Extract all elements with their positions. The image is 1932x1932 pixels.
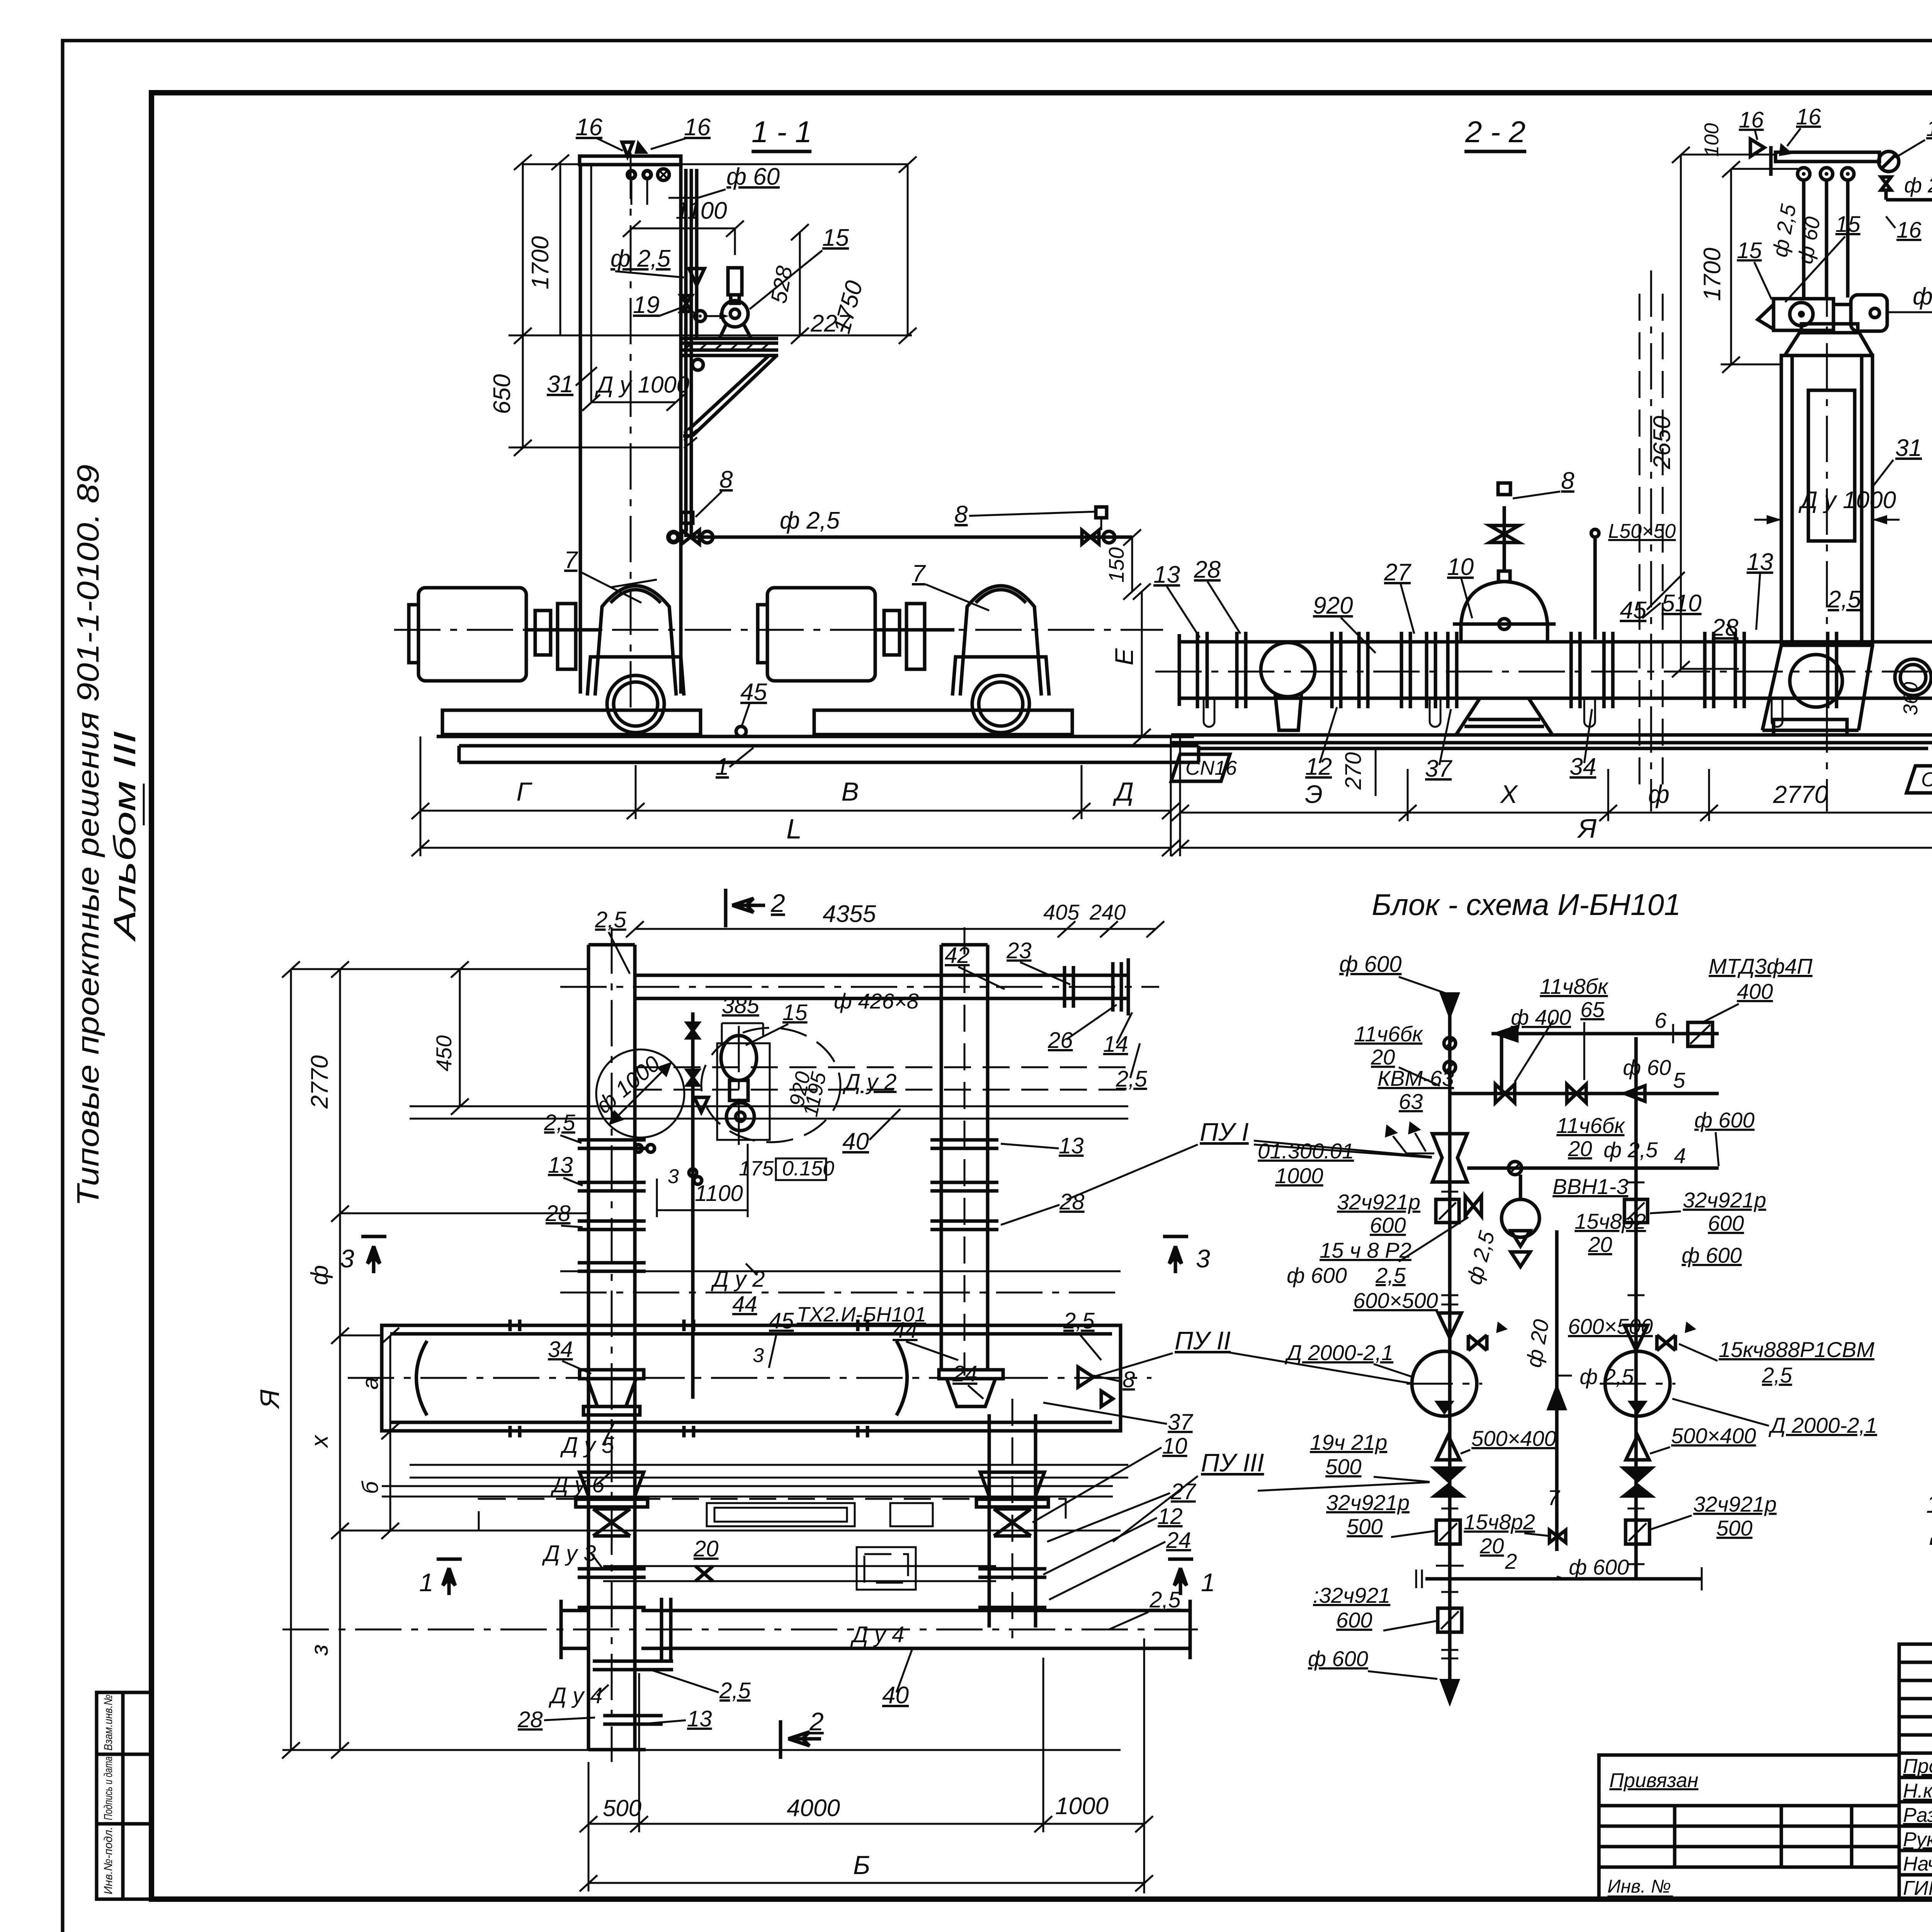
dim 2650 [1680,155,1682,669]
svg-text:2650: 2650 [1649,416,1675,469]
svg-text:20: 20 [1480,1534,1504,1558]
check valve dome [1461,582,1548,642]
dim E [1141,591,1143,736]
svg-text:360: 360 [1900,682,1922,716]
svg-text:Б: Б [853,1850,870,1880]
svg-text::32ч921: :32ч921 [1313,1583,1390,1607]
svg-text:Рук.гр.: Рук.гр. [1903,1828,1932,1851]
svg-text:2770: 2770 [1773,781,1828,808]
beam line [410,1105,1128,1107]
svg-text:63: 63 [1399,1089,1423,1114]
svg-text:20: 20 [1568,1136,1592,1161]
staff table thin top rows [1899,1661,1932,1664]
svg-text:ф 600: ф 600 [1569,1555,1629,1579]
svg-text:0.150: 0.150 [782,1157,834,1180]
svg-text:ф: ф [1648,780,1669,808]
privyazan box [1599,1755,1899,1899]
svg-text:3: 3 [1196,1244,1210,1273]
svg-text:15ч8р2: 15ч8р2 [1464,1510,1535,1534]
svg-text:13: 13 [1059,1133,1084,1158]
small valve below vvn [1465,1196,1481,1216]
open tank rect [857,1547,916,1590]
svg-text:15кч888Р1СВМ: 15кч888Р1СВМ [1719,1337,1874,1362]
svg-text:Инв. №: Инв. № [1607,1876,1671,1897]
svg-text:15: 15 [1835,212,1861,237]
svg-text:Инв.№-подл.: Инв.№-подл. [102,1827,115,1895]
damper box MTD3f4P [1688,1022,1713,1046]
svg-text:500: 500 [1325,1454,1361,1479]
svg-text:600: 600 [1336,1608,1372,1632]
svg-text:1: 1 [716,753,729,780]
svg-text:13: 13 [1153,561,1180,588]
svg-text:1: 1 [1201,1568,1215,1597]
bottom dim chain [1179,735,1181,856]
svg-text:ф 2,5: ф 2,5 [1904,173,1932,197]
Dy3 pipe [603,1565,996,1567]
svg-text:Д 2000-2,1: Д 2000-2,1 [1284,1340,1393,1365]
lower frame dashed rect [479,1499,1066,1531]
platform deck [680,337,778,340]
svg-text:40: 40 [842,1128,869,1155]
line 5 [1450,1092,1719,1095]
column centerline [630,153,632,715]
aux pump monoblock plan [701,1028,840,1142]
CN16 tags [1171,754,1230,781]
right upper pipe [940,945,943,1370]
svg-text:ПУ II: ПУ II [1175,1326,1231,1355]
left gate square [1436,1199,1459,1223]
gate squares 500 [1436,1520,1460,1544]
svg-text:L: L [786,814,802,845]
lower left continuation [1438,1608,1462,1632]
svg-text:2,5: 2,5 [719,1678,751,1703]
svg-text:L50×50: L50×50 [1608,520,1676,543]
Dy4 bottom pipe [641,1609,1190,1612]
valve circles on main [1444,1037,1456,1049]
svg-text:23: 23 [1006,938,1032,963]
svg-text:42: 42 [945,943,970,968]
svg-text:Альбом III: Альбом III [107,731,142,942]
f1000 dashed circle [596,1049,684,1138]
svg-text:Привязан: Привязан [1609,1769,1698,1792]
svg-text:8: 8 [719,466,733,493]
svg-text:8: 8 [954,501,968,528]
svg-text:45: 45 [1620,597,1646,624]
svg-text:8: 8 [1561,468,1575,494]
svg-text:11ч6бк: 11ч6бк [1556,1113,1626,1138]
centerline pumps [394,629,1163,631]
valve 19 on riser [681,296,692,311]
vacuum column vessel [1781,355,1872,645]
svg-text:12: 12 [1158,1504,1183,1529]
svg-text:16: 16 [1796,104,1821,129]
section mark 2 top [724,889,728,927]
valves 16 on top [1750,139,1764,156]
svg-text:920: 920 [1313,592,1353,619]
svg-text:24: 24 [952,1361,978,1386]
Dy6 transition left [580,1472,644,1499]
dim 650 [522,162,524,447]
svg-text:44: 44 [732,1292,757,1317]
svg-text:Д у 4: Д у 4 [850,1622,904,1647]
lower flanges left pipe [578,1569,673,1750]
flanges [1197,632,1837,708]
svg-text:24: 24 [1166,1528,1191,1553]
dim 1700 [560,162,561,335]
svg-text:Блок - схема И-БН101: Блок - схема И-БН101 [1372,888,1681,922]
risers [684,169,688,537]
bracket brace [692,356,776,436]
svg-text:ПУ I: ПУ I [1200,1117,1249,1146]
svg-text:Взам.инв.№: Взам.инв.№ [102,1695,115,1751]
pump casing 1 [595,586,676,696]
valve group left [666,530,681,544]
svg-text:2,5: 2,5 [1063,1308,1095,1333]
svg-text:1100: 1100 [675,197,727,224]
svg-text:2,5: 2,5 [1149,1587,1181,1612]
svg-text:СN16: СN16 [1185,757,1237,779]
svg-text:10: 10 [1162,1434,1187,1459]
svg-text:13: 13 [1747,549,1773,575]
svg-text:Д у 6: Д у 6 [550,1472,605,1497]
elbow circle left [1261,643,1315,697]
svg-text:6: 6 [1655,1008,1667,1032]
gauge circles [626,169,637,180]
svg-text:2: 2 [1505,1549,1517,1573]
branch vertical [1500,1034,1503,1094]
svg-text:13: 13 [548,1153,573,1178]
X valve left [593,1509,630,1536]
header bolts [510,1320,867,1437]
svg-text:65: 65 [1580,997,1605,1022]
diag valves with flags [1468,1335,1487,1350]
riser hatch mark [684,422,697,448]
svg-text:32ч921р: 32ч921р [1337,1190,1420,1214]
dim 150 [1131,537,1133,591]
svg-text:500×400: 500×400 [1671,1423,1756,1448]
pump suction circle 1 [607,675,664,733]
svg-text:16: 16 [1896,218,1922,243]
svg-text:ф 60: ф 60 [726,163,780,190]
svg-text:Д 2000-2,1: Д 2000-2,1 [1768,1413,1877,1437]
svg-text:175: 175 [739,1157,774,1180]
svg-text:650: 650 [489,374,515,414]
svg-text:Д у 2: Д у 2 [842,1070,896,1095]
valve 16 open [622,142,633,156]
svg-text:2: 2 [770,889,785,917]
valve pair right [1082,530,1099,544]
Dy5 transition flange [580,1370,644,1415]
svg-text:44: 44 [893,1318,918,1343]
svg-text:8: 8 [1122,1367,1135,1392]
sub dims a b [389,1335,391,1531]
main inlet line [1448,992,1452,1679]
svg-text:4000: 4000 [787,1795,840,1821]
svg-text:500×400: 500×400 [1471,1426,1556,1451]
svg-text:37: 37 [1168,1410,1194,1435]
svg-text:2,5: 2,5 [1827,586,1861,613]
svg-text:11ч8бк: 11ч8бк [1540,974,1609,998]
svg-text:270: 270 [1341,752,1366,790]
svg-text:19ч 21р: 19ч 21р [1310,1430,1387,1454]
svg-text:2,5: 2,5 [544,1110,575,1135]
svg-text:Э: Э [1305,780,1323,808]
dim 1700 [1730,169,1732,364]
Dy6 transition right [980,1472,1044,1499]
reducers 500x400 [1437,1435,1460,1460]
svg-text:400: 400 [1737,979,1773,1003]
svg-text:ф 400: ф 400 [1511,1005,1571,1029]
dome support [1456,698,1553,735]
svg-text:3: 3 [340,1244,354,1273]
check valves filled [1430,1466,1467,1498]
coupling 1 [535,611,551,655]
svg-text:500: 500 [1716,1516,1752,1540]
X valve right [994,1509,1031,1536]
svg-text:240: 240 [1089,900,1126,924]
svg-text:Н.контр: Н.контр [1903,1780,1932,1802]
pump unit 2 motor [767,588,875,681]
svg-text:Г: Г [517,777,533,806]
top pressure pipe f426x8 [635,974,1128,977]
KVM flags [1385,1124,1398,1138]
svg-text:28: 28 [1711,614,1738,641]
line 6 to MTD [1492,1032,1719,1036]
left pipe column [587,945,590,1750]
dim 528 [799,232,801,335]
svg-text:11ч6бк: 11ч6бк [1354,1022,1423,1046]
svg-text:2: 2 [809,1707,824,1736]
svg-text:ГИП: ГИП [1903,1877,1932,1900]
svg-text:150: 150 [1104,547,1128,583]
svg-text:б: б [358,1480,383,1494]
vacuum unit symbol [1432,1134,1467,1182]
inlet arrow [1439,992,1460,1020]
svg-text:ф 600: ф 600 [1694,1108,1755,1132]
VVN1-3 pump [1502,1199,1539,1237]
column top piping [1802,180,1806,298]
svg-text:15: 15 [822,224,849,251]
svg-text:16: 16 [1739,107,1764,133]
svg-text:34: 34 [548,1337,573,1362]
svg-text:13: 13 [687,1706,712,1731]
svg-text:1700: 1700 [527,236,554,289]
svg-text:Провер.: Провер. [1903,1755,1932,1777]
L50x50 post [1594,538,1597,639]
svg-text:500: 500 [603,1795,641,1821]
outlet circle right [1895,659,1931,696]
section 3 marks [361,1235,386,1238]
section 2 bottom [779,1720,782,1759]
tie line at platform level [509,335,912,337]
svg-text:Нач.отд: Нач.отд [1903,1853,1932,1875]
svg-text:2,5: 2,5 [595,907,626,932]
svg-text:1000: 1000 [1055,1793,1109,1820]
coupling 2 [884,611,900,655]
svg-text:1000: 1000 [1275,1163,1323,1188]
svg-text:20: 20 [1371,1045,1395,1069]
svg-text:31: 31 [547,371,573,398]
svg-text:1100: 1100 [695,1181,743,1206]
svg-text:ф 2,5: ф 2,5 [780,507,840,534]
Dy2 level lines [560,1270,1121,1272]
svg-text:ф 2,5: ф 2,5 [1604,1138,1658,1162]
svg-text:3: 3 [753,1344,764,1367]
pump casing 2 [960,586,1041,696]
svg-text:40: 40 [882,1682,909,1709]
svg-text:37: 37 [1425,755,1452,782]
aux pump 15 [728,268,742,295]
right gate square [1624,1199,1648,1223]
svg-text:2,5: 2,5 [1375,1263,1406,1287]
svg-text:5: 5 [1673,1068,1685,1092]
tie line 650 bottom [509,447,680,449]
column bottom cone support [1762,645,1872,730]
flow arrow on riser [689,269,704,285]
bottom dims G V D [420,736,422,856]
svg-text:4355: 4355 [823,901,876,927]
svg-text:32ч921р: 32ч921р [1693,1492,1777,1516]
pump D2000 right [1605,1351,1670,1416]
left dim chain [290,969,292,1750]
column walls Dy1000 [579,165,582,694]
main suction pipe [1179,640,1932,644]
svg-text:15: 15 [1737,238,1762,263]
svg-text:ф 600: ф 600 [1682,1243,1742,1267]
svg-text:385: 385 [722,993,760,1018]
left stub [561,1609,588,1612]
svg-text:Д у 1000: Д у 1000 [595,372,689,398]
f20 line [1555,1230,1559,1551]
svg-text:16: 16 [684,114,711,141]
svg-text:32ч921р: 32ч921р [1683,1188,1766,1212]
svg-text:ПУ III: ПУ III [1201,1448,1264,1477]
plan boundary bottom [282,1749,1121,1751]
column inner panel [1808,390,1855,541]
bottom-left margin strip table [97,1692,151,1899]
svg-text:1 - 1: 1 - 1 [752,115,812,149]
svg-text:з: з [306,1645,333,1656]
dim 1750 right [681,163,908,165]
svg-text:600: 600 [1708,1211,1744,1235]
svg-text:26: 26 [1048,1028,1073,1053]
column centerline [1826,270,1828,811]
baseplate 1 [442,710,701,735]
svg-text:16: 16 [576,114,602,141]
svg-text:ВВН1-3: ВВН1-3 [1553,1174,1628,1199]
svg-text:2,5: 2,5 [1762,1363,1793,1387]
svg-text:Типовые проектные решения 901-: Типовые проектные решения 901-1-0100. 89 [71,464,105,1206]
suction header [382,1325,1121,1431]
bottom dim chain [588,1762,590,1832]
svg-text:28: 28 [517,1707,543,1732]
svg-text:1. На данном листе приведен бл: 1. На данном листе приведен блок нагнета… [1926,1490,1932,1518]
building column dashed [1639,294,1641,788]
svg-text:4: 4 [1674,1143,1686,1168]
svg-text:Разраб.: Разраб. [1903,1804,1932,1827]
svg-text:7: 7 [1548,1485,1560,1510]
drain hooks [1204,698,1782,727]
svg-text:ф 600: ф 600 [1339,952,1401,977]
top support bar [580,156,681,165]
svg-text:Я: Я [255,1389,285,1410]
flange ticks on main [1436,1182,1645,1658]
svg-text:2 - 2: 2 - 2 [1465,115,1526,149]
top pump unit 15 [1758,304,1774,329]
boundary line b/z [340,1530,1121,1532]
staff table outline [1899,1644,1932,1899]
svg-text:ф 2,5: ф 2,5 [611,245,671,272]
svg-text:600×500: 600×500 [1353,1288,1438,1313]
svg-text:В: В [841,777,859,806]
svg-text:100: 100 [1701,123,1723,157]
note text [1926,1490,1932,1545]
svg-text:405: 405 [1043,900,1080,924]
svg-text:14: 14 [1103,1032,1128,1057]
svg-text:19: 19 [633,292,660,318]
svg-text:32ч921р: 32ч921р [1326,1490,1410,1515]
svg-text:Д у 2: Д у 2 [711,1267,765,1292]
pipe centerline [1155,671,1932,673]
svg-text:2770: 2770 [306,1055,333,1109]
baseplate 2 [814,710,1072,735]
f25 horizontal pipe [691,536,1132,539]
right lower pipe [988,1414,991,1628]
pump unit 1 motor [418,588,526,681]
pump suction circle 2 [972,675,1029,733]
foundation line [1171,733,1932,737]
svg-text:500: 500 [1347,1514,1383,1539]
svg-text:ф 60: ф 60 [1913,283,1932,310]
svg-text:ф 60: ф 60 [1623,1055,1671,1080]
svg-text:27: 27 [1170,1479,1197,1504]
svg-text:28: 28 [1194,556,1221,583]
top dim row [635,928,1155,930]
svg-text:20: 20 [1588,1232,1612,1257]
svg-text:ф 600: ф 600 [1308,1646,1368,1671]
diagram-side PU leaders [1254,1141,1432,1157]
svg-text:1700: 1700 [1699,248,1726,301]
riser line f25 [691,1012,695,1399]
svg-text:Д у 4: Д у 4 [548,1683,602,1708]
svg-text:ф: ф [306,1265,333,1285]
pipe circle on bracket [692,359,703,370]
svg-text:Е: Е [1110,648,1138,665]
svg-text:7: 7 [912,560,926,587]
right branch vertical [1634,1037,1638,1579]
svg-text:ф 600: ф 600 [1287,1263,1347,1287]
svg-text:12: 12 [1305,753,1332,780]
dome valve stem [1503,506,1506,571]
svg-text:27: 27 [1384,559,1412,586]
svg-text:а: а [358,1377,383,1389]
svg-text:Подпись и дата: Подпись и дата [102,1757,115,1820]
dim L [420,847,1171,849]
svg-text:31: 31 [1895,435,1922,461]
svg-text:45: 45 [740,679,767,706]
svg-text:20: 20 [693,1536,719,1561]
line 2 bottom [1425,1577,1702,1581]
svg-text:10: 10 [1447,554,1474,580]
svg-text:15: 15 [782,1000,808,1025]
foundation [437,735,1194,738]
svg-text:х: х [306,1435,333,1449]
svg-text:Д у 3: Д у 3 [542,1541,596,1566]
svg-text:СN16: СN16 [1921,769,1932,791]
valve 16 filled [634,140,648,154]
svg-text:Я: Я [1577,813,1597,844]
svg-text:510: 510 [1662,590,1701,617]
